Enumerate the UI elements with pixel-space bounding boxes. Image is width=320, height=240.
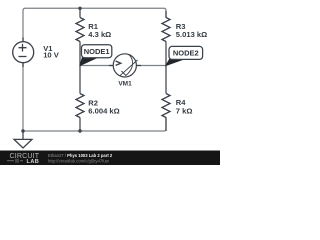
wire left rail lower (22, 61, 24, 131)
resistor R2 (76, 94, 84, 118)
svg-text:4.3 kΩ: 4.3 kΩ (88, 30, 111, 39)
footer logo LAB row (7, 159, 23, 163)
wire R3 branch vertical (165, 11, 167, 66)
svg-text:LAB: LAB (27, 159, 40, 165)
svg-text:NODE1: NODE1 (84, 47, 110, 56)
wire R1 branch vertical (79, 8, 81, 65)
node NODE2 flag (166, 59, 183, 65)
junction dot bottom middle (78, 129, 81, 132)
svg-text:5.013 kΩ: 5.013 kΩ (176, 30, 207, 39)
svg-text:Ethan27 / Phys 1003 Lab 2 part: Ethan27 / Phys 1003 Lab 2 part 2 (48, 153, 113, 158)
node NODE1 flag (80, 58, 97, 66)
svg-text:NODE2: NODE2 (173, 49, 199, 58)
wire R2 branch vertical (79, 66, 81, 132)
resistor R3 (162, 18, 170, 42)
wire voltmeter left (80, 65, 114, 67)
svg-text:http://circuitlab.com/c/g5by47: http://circuitlab.com/c/g5by47fuw (48, 158, 110, 163)
resistor R4 (162, 94, 170, 118)
wire top rail with corners (23, 8, 166, 44)
junction dot bottom left (21, 129, 24, 132)
footer bar (0, 151, 220, 166)
svg-text:6.004 kΩ: 6.004 kΩ (88, 107, 119, 116)
ground (22, 131, 24, 139)
voltmeter VM1 (109, 65, 141, 67)
junction dot top (78, 7, 81, 10)
wire R4 branch vertical (165, 66, 167, 132)
voltage source V1 (22, 38, 24, 68)
svg-text:10 V: 10 V (43, 51, 60, 60)
wire bottom rail (23, 117, 166, 131)
svg-text:VM1: VM1 (118, 80, 132, 87)
resistor R1 (76, 18, 84, 42)
wire voltmeter right (137, 65, 167, 67)
svg-text:7 kΩ: 7 kΩ (176, 107, 193, 116)
